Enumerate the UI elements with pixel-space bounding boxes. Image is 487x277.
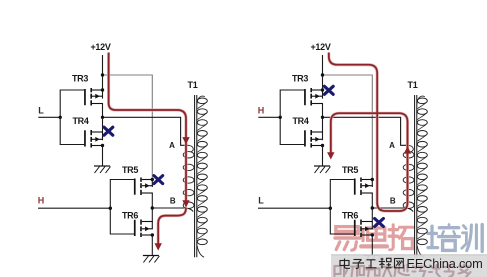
char 网 [395, 259, 404, 268]
junction TR5 drain left [151, 178, 154, 181]
wire node B from TR5/TR6 midpoint [372, 208, 413, 212]
junction L input to gate bus right [329, 207, 332, 210]
transformer T1 secondary winding [197, 96, 207, 257]
gate bus TR3/TR4 [280, 90, 304, 145]
X mark on TR5 (off) [154, 176, 163, 184]
char 程 [379, 258, 392, 269]
junction TR3/TR4 midpoint to node A right [321, 116, 324, 119]
red arrow down into ground below TR4 right [327, 152, 334, 159]
wire node B from TR5/TR6 midpoint [152, 208, 193, 212]
gate bus TR5/TR6 [330, 180, 354, 235]
svg-text:T1: T1 [188, 80, 198, 90]
ground below TR4 [94, 166, 111, 173]
red arrow into ground below TR6 [155, 243, 162, 250]
red current path +12V through TR3 to A then B (halo) [109, 53, 186, 205]
char 电 [340, 259, 350, 269]
svg-text:+12V: +12V [310, 42, 330, 52]
red current path +12V via TR5 to B up through primary to A and back via TR4 to ground (halo) [329, 53, 408, 212]
watermark char 培 (blue) [428, 224, 459, 250]
gate bus TR5/TR6 [110, 180, 134, 235]
wire input H [258, 116, 280, 118]
svg-text:H: H [38, 195, 45, 205]
red arrow into B [182, 200, 189, 207]
red arrow into A [182, 137, 189, 144]
junction TR5/TR6 midpoint node B left [151, 206, 154, 209]
watermark char 迪 (pink) [361, 225, 387, 247]
junction TR6 source right [371, 233, 374, 236]
watermark text 电子工程网 (hand-drawn strokes) [340, 258, 403, 269]
transistor TR6 right [354, 220, 373, 238]
svg-text:+12V: +12V [90, 42, 110, 52]
watermark char 训 (blue) [462, 225, 482, 252]
transistor TR3 [84, 88, 103, 106]
wire input L [258, 207, 330, 209]
svg-text:L: L [258, 195, 264, 205]
X mark on TR3 right (off) [324, 86, 333, 94]
junction +12V/TR5-branch right [321, 73, 324, 76]
svg-text:TR3: TR3 [292, 74, 308, 84]
junction TR5/TR6 midpoint node B right [371, 206, 374, 209]
transformer T1 primary winding [183, 145, 194, 208]
transistor TR5 [134, 178, 153, 196]
junction L input to gate bus left [59, 116, 62, 119]
wire +12V vertical (TR3 drain chain) [322, 55, 324, 166]
char 子 [353, 260, 365, 269]
gate bus TR3/TR4 [60, 90, 84, 145]
svg-text:TR5: TR5 [342, 165, 358, 175]
svg-text:A: A [169, 141, 175, 150]
svg-text:TR4: TR4 [292, 116, 308, 126]
watermark char 易 (pink) [335, 227, 360, 251]
svg-text:TR4: TR4 [72, 116, 88, 126]
red arrow up into A right [404, 146, 411, 153]
junction TR3/TR4 midpoint to node A left [101, 116, 104, 119]
svg-text:H: H [258, 106, 265, 116]
junction TR4 source right [321, 144, 324, 147]
transformer T1 right core [414, 95, 416, 257]
junction TR6 source left [151, 233, 154, 236]
junction TR5 drain right [371, 178, 374, 181]
ground below TR4 right [314, 166, 331, 173]
transistor TR3 right [304, 88, 323, 106]
ground below TR6 [143, 256, 160, 263]
svg-text:EEChina.com: EEChina.com [407, 256, 483, 271]
junction H input to gate bus right [279, 116, 282, 119]
svg-text:TR6: TR6 [342, 210, 358, 220]
svg-text:B: B [390, 197, 396, 206]
transistor TR5 right [354, 178, 373, 196]
char 工 [366, 260, 377, 268]
transformer T1 right secondary winding [417, 96, 427, 257]
svg-text:A: A [389, 141, 395, 150]
junction H input to gate bus left [109, 207, 112, 210]
wire gray branch +12V to TR5 drain [103, 75, 153, 180]
watermark text 易迪拓培训 (hand-drawn strokes) [335, 224, 482, 251]
wire +12V vertical (TR3 drain chain) [102, 55, 104, 166]
watermark char 拓 (pink) [389, 225, 413, 250]
transistor TR4 [84, 130, 103, 148]
svg-text:L: L [38, 106, 44, 116]
junction +12V/TR5-branch left [101, 73, 104, 76]
red current path B down through TR6 to ground (halo) [158, 208, 186, 244]
X mark on TR6 right (off) [375, 219, 384, 227]
wire input L [38, 116, 60, 118]
wire TR5/TR6 vertical [371, 180, 373, 256]
transformer T1 core [194, 95, 196, 257]
ground below TR6 right [364, 256, 381, 263]
wire gray branch +12V to TR5 drain [323, 75, 373, 180]
junction TR4 source left [101, 144, 104, 147]
junction TR3 drain right [321, 88, 324, 91]
svg-text:TR5: TR5 [122, 165, 138, 175]
wire node A from TR3/TR4 midpoint [103, 117, 189, 145]
svg-text:T1: T1 [408, 80, 418, 90]
wire node A from TR3/TR4 midpoint [323, 117, 409, 145]
watermark text 射频和天线设计专家 (partial, hand-drawn strokes) [335, 265, 471, 277]
transformer T1 right primary winding [403, 145, 414, 208]
wire input H [38, 207, 110, 209]
svg-text:B: B [170, 197, 176, 206]
watermark banner band [331, 255, 487, 277]
junction TR3 drain left [101, 88, 104, 91]
wire TR5/TR6 vertical [151, 180, 153, 256]
svg-text:TR3: TR3 [72, 74, 88, 84]
transistor TR6 [134, 220, 153, 238]
transistor TR4 right [304, 130, 323, 148]
X mark on TR4 (off) [104, 127, 113, 135]
svg-text:TR6: TR6 [122, 210, 138, 220]
